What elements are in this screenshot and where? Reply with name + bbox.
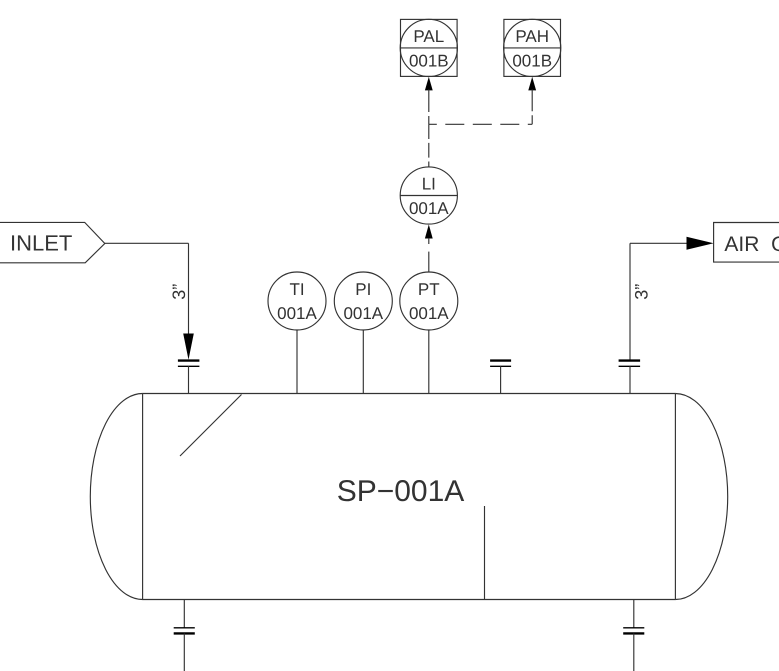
svg-text:001B: 001B	[512, 51, 552, 70]
air outlet pipe horizontal	[630, 242, 690, 244]
svg-text:PAH: PAH	[515, 27, 549, 46]
svg-text:AIR OUTLET: AIR OUTLET	[724, 233, 779, 256]
air outlet nozzle flange	[619, 361, 641, 367]
svg-text:PAL: PAL	[413, 27, 444, 46]
dashed signal line vertical to PAH	[531, 103, 533, 124]
instrument lead line PT	[428, 330, 430, 394]
inlet nozzle flange	[178, 361, 200, 367]
drain nozzle right flange	[623, 628, 644, 634]
inlet nozzle neck	[188, 366, 190, 393]
air outlet pipe vertical	[629, 243, 631, 360]
AIR OUTLET line flag box	[714, 223, 779, 263]
instrument bubble PI 001A	[334, 272, 392, 330]
signal arrow into PAH	[528, 77, 536, 103]
signal arrow into LI	[425, 225, 433, 239]
inlet pipe horizontal	[105, 242, 189, 244]
signal arrow into PAL	[425, 77, 433, 103]
vessel SP-001A shell	[143, 394, 676, 600]
svg-text:001B: 001B	[409, 51, 449, 70]
inlet deflector baffle	[180, 395, 242, 457]
svg-text:TI: TI	[289, 280, 304, 299]
drain nozzle left flange	[174, 628, 195, 634]
vessel right head	[675, 394, 727, 600]
spare nozzle neck	[500, 366, 502, 393]
spare nozzle flange	[490, 361, 511, 367]
svg-text:3”: 3”	[632, 284, 652, 300]
instrument bubble PAL 001B	[400, 19, 457, 76]
air outlet nozzle neck	[629, 366, 631, 393]
svg-text:001A: 001A	[409, 304, 449, 323]
air outlet flow arrow	[687, 237, 714, 250]
svg-text:001A: 001A	[409, 199, 449, 218]
inlet flow arrow	[183, 334, 194, 360]
svg-text:INLET: INLET	[10, 230, 72, 255]
instrument bubble PAH 001B	[504, 19, 561, 76]
svg-text:001A: 001A	[343, 304, 383, 323]
weir plate	[484, 506, 486, 600]
dashed signal line PT to LI	[428, 238, 430, 244]
drain pipe left	[183, 633, 185, 671]
INLET line flag	[0, 222, 105, 262]
instrument lead line PI	[362, 330, 364, 394]
dashed signal line LI to PAL	[428, 103, 430, 124]
svg-text:001A: 001A	[277, 304, 317, 323]
drain nozzle left neck	[183, 600, 185, 628]
vessel left head	[90, 394, 142, 600]
svg-text:PT: PT	[418, 280, 440, 299]
inlet pipe vertical	[188, 243, 190, 334]
instrument bubble LI 001A	[400, 167, 457, 224]
drain nozzle right neck	[633, 600, 635, 628]
dashed signal line vertical above LI	[428, 124, 430, 167]
dashed signal line PT to LI (lower dash)	[428, 252, 430, 273]
svg-text:3”: 3”	[169, 284, 189, 300]
instrument bubble TI 001A	[268, 272, 326, 330]
instrument lead line TI	[296, 330, 298, 394]
drain pipe right	[633, 633, 635, 671]
dashed signal line horizontal run	[429, 123, 532, 125]
svg-text:SP−001A: SP−001A	[337, 475, 465, 508]
instrument bubble PT 001A	[400, 272, 458, 330]
svg-text:LI: LI	[422, 174, 436, 193]
svg-text:PI: PI	[355, 280, 371, 299]
